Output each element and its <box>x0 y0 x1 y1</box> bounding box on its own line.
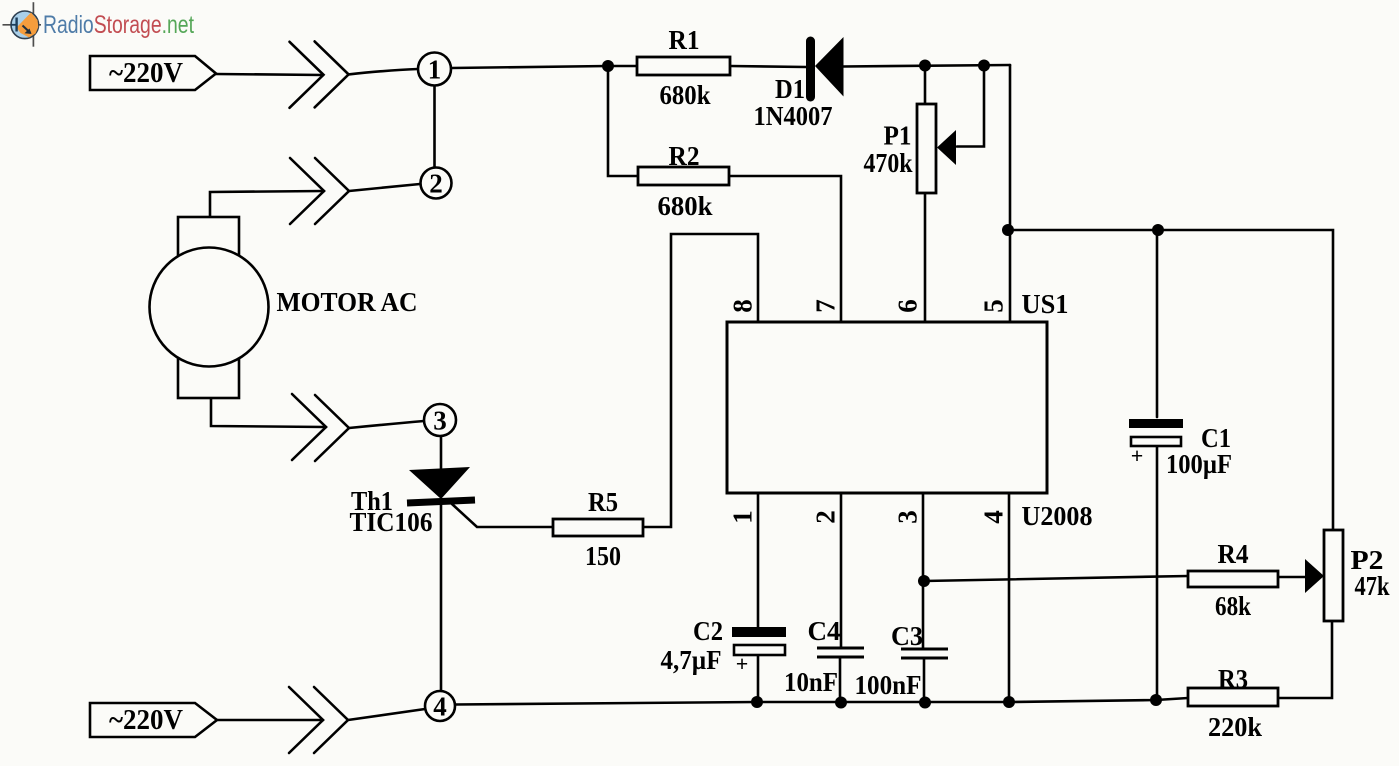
svg-text:~220V: ~220V <box>109 704 183 736</box>
svg-text:6: 6 <box>893 299 923 313</box>
svg-text:1: 1 <box>728 510 758 524</box>
svg-text:680k: 680k <box>660 80 711 110</box>
svg-text:MOTOR AC: MOTOR AC <box>277 287 418 317</box>
svg-text:C3: C3 <box>891 621 923 651</box>
svg-text:R1: R1 <box>669 25 700 55</box>
svg-text:100µF: 100µF <box>1166 449 1232 479</box>
svg-text:150: 150 <box>585 541 621 571</box>
svg-text:470k: 470k <box>864 148 913 178</box>
svg-text:+: + <box>736 651 749 676</box>
svg-text:4: 4 <box>433 692 447 722</box>
svg-text:10nF: 10nF <box>784 667 838 697</box>
svg-text:+: + <box>1131 443 1144 468</box>
svg-text:D1: D1 <box>775 74 805 104</box>
svg-text:C2: C2 <box>693 616 723 646</box>
svg-text:100nF: 100nF <box>855 670 922 700</box>
svg-text:R5: R5 <box>588 487 618 517</box>
svg-text:U2008: U2008 <box>1022 501 1093 531</box>
svg-text:4: 4 <box>979 510 1009 524</box>
svg-text:7: 7 <box>811 299 841 313</box>
svg-text:TIC106: TIC106 <box>350 507 433 537</box>
svg-text:1: 1 <box>428 55 442 85</box>
svg-text:2: 2 <box>811 510 841 524</box>
svg-text:R4: R4 <box>1218 539 1249 569</box>
svg-text:RadioStorage.net: RadioStorage.net <box>43 11 194 39</box>
svg-text:47k: 47k <box>1355 571 1390 601</box>
svg-text:3: 3 <box>893 510 923 524</box>
svg-text:R3: R3 <box>1218 664 1248 694</box>
svg-text:3: 3 <box>433 406 447 436</box>
svg-text:US1: US1 <box>1022 289 1069 319</box>
svg-text:2: 2 <box>429 169 443 199</box>
svg-text:P1: P1 <box>884 121 912 151</box>
svg-text:C4: C4 <box>808 616 841 646</box>
svg-text:4,7µF: 4,7µF <box>661 645 722 675</box>
svg-text:220k: 220k <box>1208 712 1262 742</box>
svg-text:680k: 680k <box>658 191 713 221</box>
svg-text:68k: 68k <box>1215 591 1251 621</box>
svg-text:~220V: ~220V <box>109 57 183 89</box>
svg-text:1N4007: 1N4007 <box>754 101 833 131</box>
svg-text:R2: R2 <box>669 141 700 171</box>
svg-text:5: 5 <box>979 299 1009 313</box>
svg-text:8: 8 <box>728 299 758 313</box>
